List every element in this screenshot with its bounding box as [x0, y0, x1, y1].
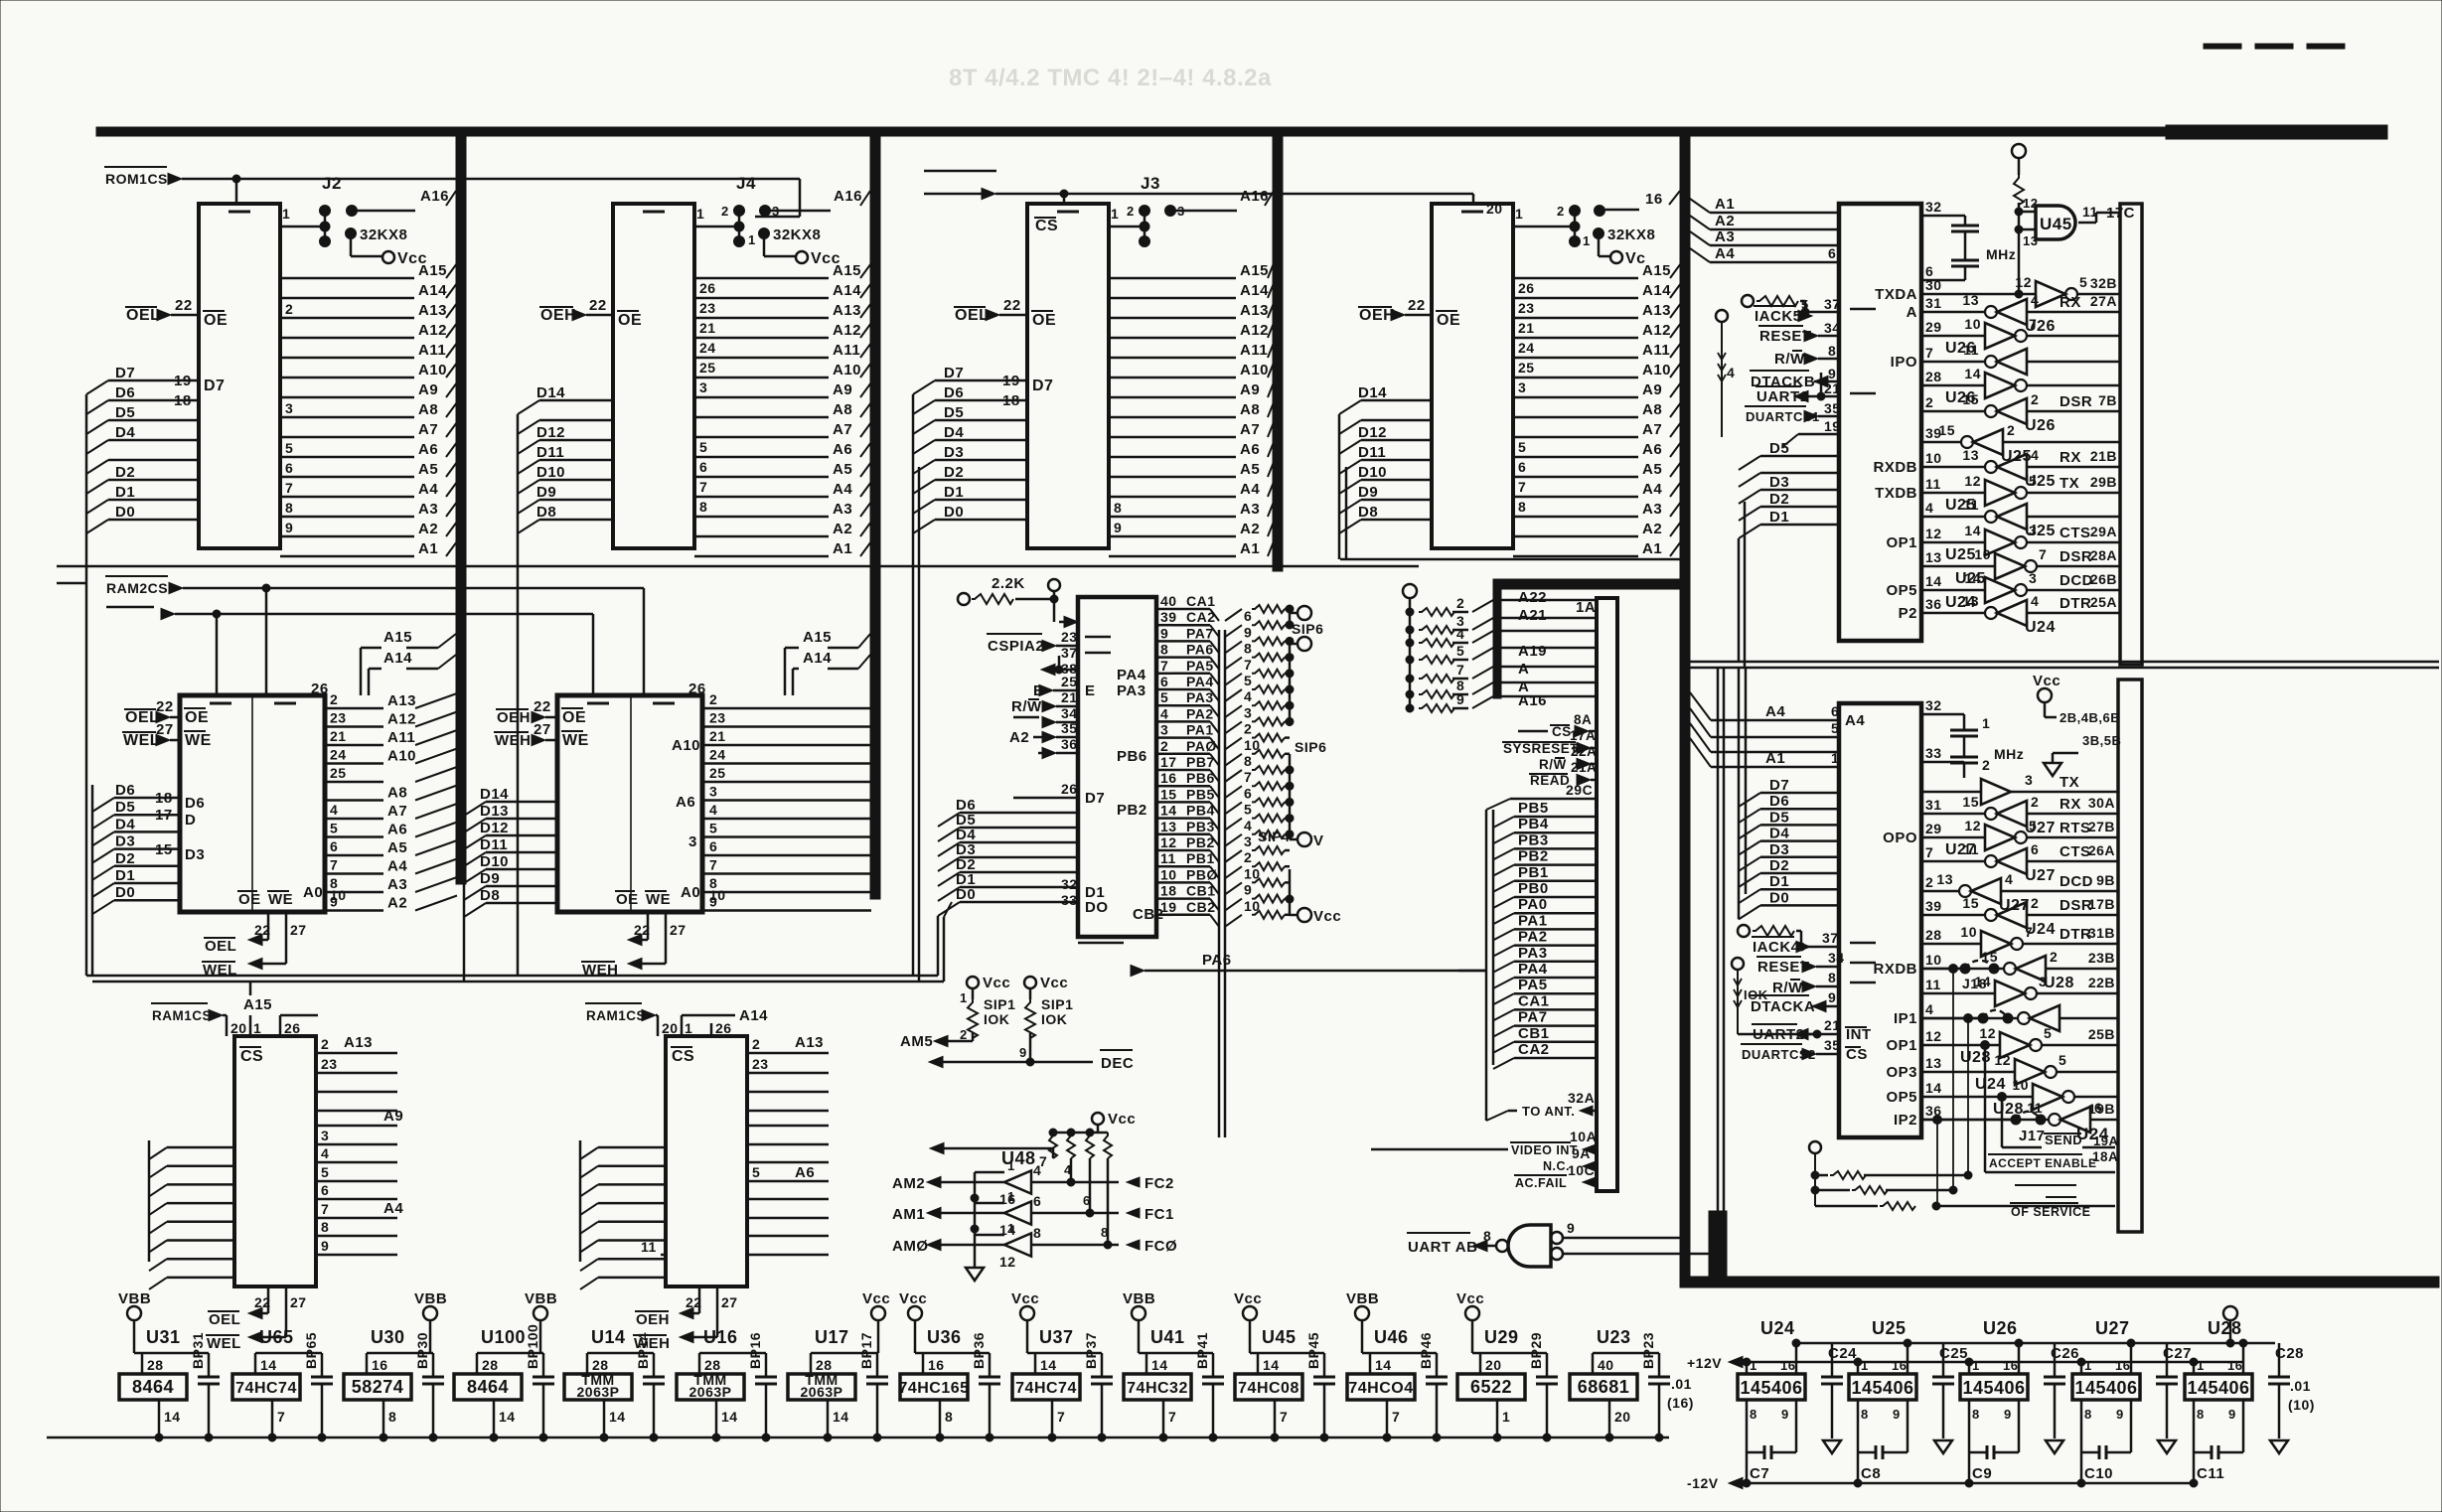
svg-text:13: 13	[1962, 292, 1979, 308]
IC RAM2 low byte 8Kx8 RAM	[180, 695, 325, 912]
wire ROM2 pin1 to J4	[694, 206, 739, 227]
svg-text:5: 5	[1244, 673, 1252, 688]
svg-text:PB3: PB3	[1518, 832, 1549, 848]
svg-text:58274: 58274	[352, 1377, 404, 1397]
svg-text:PA7: PA7	[1186, 625, 1214, 641]
wire UART AB out	[1407, 1228, 1496, 1256]
svg-text:39: 39	[1160, 609, 1177, 625]
IC U41 74HC32 with bypass capacitor BP41	[1123, 1290, 1224, 1441]
wire RAM1H A14 pin	[682, 1007, 768, 1036]
svg-text:4: 4	[1064, 1162, 1072, 1177]
svg-text:U24: U24	[1760, 1318, 1795, 1338]
svg-text:6: 6	[1828, 245, 1836, 261]
svg-text:23: 23	[752, 1056, 769, 1072]
wire OEL to RAM2L	[124, 709, 180, 726]
svg-text:7: 7	[330, 857, 338, 873]
wire SIP6 group2	[1286, 637, 1311, 726]
svg-text:21: 21	[709, 728, 726, 744]
svg-text:U24: U24	[1975, 1076, 2006, 1093]
svg-text:13: 13	[2023, 233, 2038, 248]
svg-text:2B,4B,6B: 2B,4B,6B	[2060, 710, 2120, 725]
wire DEC line	[929, 1033, 1134, 1072]
svg-text:SIP1: SIP1	[1041, 996, 1073, 1012]
label RAM1H CS	[671, 1047, 694, 1065]
svg-text:D3: D3	[1769, 474, 1789, 491]
svg-text:WEH: WEH	[495, 732, 532, 749]
svg-text:OEL: OEL	[955, 307, 989, 324]
resistor option1	[1811, 1171, 1972, 1179]
svg-text:A1: A1	[1765, 750, 1785, 767]
svg-text:A12: A12	[387, 711, 416, 728]
svg-text:10: 10	[709, 887, 726, 903]
svg-text:A: A	[1907, 304, 1917, 321]
svg-text:2: 2	[2050, 949, 2058, 965]
svg-text:A16: A16	[1518, 692, 1547, 709]
jumper at ROM4	[1557, 204, 1605, 247]
wire DUART2 A bus	[1690, 692, 1865, 767]
wire ACCEPT ENABLE row	[1985, 1045, 2118, 1172]
svg-text:Vcc: Vcc	[1040, 975, 1068, 991]
wire DUARTCS2	[1741, 1037, 1868, 1063]
wire AC FAIL row	[1514, 1162, 1597, 1190]
svg-text:OE: OE	[1437, 312, 1460, 329]
inverter U26 DSR 7B	[1921, 391, 2120, 434]
wire pin36	[1038, 736, 1078, 759]
label ROM2 right pin numbers	[699, 280, 716, 515]
svg-text:C9: C9	[1972, 1465, 1992, 1482]
svg-text:BP37: BP37	[1083, 1332, 1099, 1369]
svg-text:10: 10	[1244, 865, 1261, 881]
svg-text:A1: A1	[833, 540, 852, 557]
svg-text:25A: 25A	[2090, 594, 2117, 610]
svg-text:OEL: OEL	[209, 1311, 240, 1328]
svg-text:CA2: CA2	[1186, 609, 1216, 625]
svg-text:27: 27	[290, 1294, 307, 1310]
svg-text:D7: D7	[1769, 777, 1789, 794]
svg-text:22A: 22A	[1571, 744, 1597, 759]
IC U36 74HC165 with bypass capacitor BP36	[898, 1290, 1000, 1441]
svg-text:A4: A4	[1240, 481, 1260, 498]
svg-text:8: 8	[1518, 499, 1526, 515]
svg-text:21: 21	[1518, 320, 1535, 336]
connector P1 middle	[1597, 598, 1617, 1191]
svg-text:A13: A13	[418, 302, 447, 319]
svg-text:AM5: AM5	[900, 1033, 933, 1050]
svg-text:22: 22	[175, 297, 193, 314]
power Vcc SIP1b	[1024, 975, 1068, 999]
svg-text:1: 1	[1750, 1358, 1757, 1373]
svg-text:22: 22	[534, 698, 551, 715]
svg-text:37: 37	[1061, 645, 1078, 661]
svg-text:18A: 18A	[2092, 1149, 2118, 1164]
svg-text:PA2: PA2	[1518, 929, 1548, 946]
svg-text:23: 23	[709, 710, 726, 726]
svg-text:A3: A3	[418, 501, 438, 518]
svg-text:A3: A3	[1715, 228, 1735, 245]
svg-text:8: 8	[2197, 1407, 2205, 1422]
label ROM4 32KX8	[1583, 227, 1655, 256]
IC U37 74HC74 with bypass capacitor BP37	[1011, 1290, 1113, 1441]
jumper J18	[1921, 961, 1999, 991]
label VIA D1 D0 pins	[1061, 876, 1109, 916]
svg-text:OEH: OEH	[540, 307, 576, 324]
inverter U25 CTS 29A	[1886, 523, 2120, 563]
svg-text:3: 3	[1518, 379, 1526, 395]
wire RESET	[1758, 320, 1841, 345]
svg-text:9: 9	[1456, 691, 1464, 707]
svg-text:5: 5	[2029, 473, 2037, 489]
wire rails below DUART1	[1690, 662, 2439, 668]
svg-text:U65: U65	[259, 1327, 294, 1347]
svg-text:D3: D3	[115, 833, 135, 850]
svg-text:74HC74: 74HC74	[1015, 1380, 1077, 1397]
svg-text:16: 16	[928, 1357, 945, 1373]
connector J1A upper	[2120, 204, 2142, 665]
svg-text:2: 2	[1925, 394, 1933, 410]
svg-text:A6: A6	[387, 822, 407, 838]
svg-text:7: 7	[2025, 924, 2033, 940]
svg-text:D7: D7	[1085, 790, 1105, 807]
svg-text:A15: A15	[1642, 262, 1671, 279]
svg-text:D4: D4	[115, 816, 135, 832]
svg-text:28: 28	[482, 1357, 499, 1373]
svg-text:26A: 26A	[2088, 842, 2115, 858]
svg-text:17: 17	[1160, 754, 1177, 770]
svg-text:6: 6	[1244, 785, 1252, 801]
svg-text:A8: A8	[1642, 401, 1662, 418]
svg-text:37: 37	[1824, 296, 1841, 312]
svg-text:PA0: PA0	[1518, 896, 1548, 913]
svg-text:A0: A0	[681, 884, 700, 901]
IC ROM1 32Kx8 EPROM	[175, 204, 280, 548]
svg-text:D11: D11	[536, 444, 564, 461]
wire ROM3CS net	[924, 171, 1473, 204]
svg-text:18: 18	[1160, 883, 1177, 899]
IC U46 74HCO4 with bypass capacitor BP46	[1346, 1290, 1448, 1441]
svg-text:25: 25	[1518, 360, 1535, 376]
svg-text:DCD: DCD	[2060, 873, 2093, 890]
svg-text:2: 2	[1244, 849, 1252, 865]
svg-text:1: 1	[1007, 1189, 1015, 1204]
power Vcc at ROM4 jumper	[1610, 250, 1646, 267]
svg-text:A13: A13	[387, 692, 416, 709]
svg-text:14: 14	[1925, 573, 1942, 589]
svg-text:MHz: MHz	[1994, 746, 2024, 762]
svg-text:A0: A0	[303, 884, 323, 901]
wire spare row2	[2046, 1196, 2076, 1198]
svg-text:U14: U14	[591, 1327, 626, 1347]
svg-text:A14: A14	[833, 282, 861, 299]
svg-text:U27: U27	[2025, 867, 2056, 884]
svg-text:A7: A7	[418, 421, 438, 438]
svg-text:D8: D8	[536, 504, 556, 521]
svg-text:36: 36	[1925, 1103, 1942, 1119]
svg-text:FCØ: FCØ	[1145, 1238, 1177, 1255]
wire RAM2H data bus	[464, 785, 557, 982]
svg-text:14: 14	[1964, 523, 1981, 538]
svg-text:D10: D10	[1358, 464, 1387, 481]
wire RW	[1774, 343, 1839, 368]
svg-text:7: 7	[1244, 657, 1252, 673]
ground	[1934, 1440, 1952, 1453]
svg-text:8A: 8A	[1574, 712, 1592, 727]
svg-text:3: 3	[709, 784, 717, 800]
svg-text:Vcc: Vcc	[1108, 1111, 1136, 1128]
svg-text:AM1: AM1	[892, 1206, 925, 1223]
svg-text:D5: D5	[1769, 440, 1789, 457]
label RAM2H pin10	[709, 887, 726, 903]
svg-text:13: 13	[1925, 549, 1942, 565]
svg-text:U17: U17	[815, 1327, 849, 1347]
svg-text:PB0: PB0	[1518, 880, 1549, 897]
svg-text:2: 2	[2031, 391, 2039, 407]
svg-text:8: 8	[699, 499, 707, 515]
svg-text:CS: CS	[1035, 218, 1058, 234]
wire pullup1 to pin7	[930, 1142, 1053, 1169]
svg-text:D7: D7	[204, 378, 225, 394]
svg-text:32: 32	[1925, 697, 1942, 713]
svg-text:9: 9	[1244, 624, 1252, 640]
wire VIA port pins	[1156, 593, 1219, 927]
svg-text:14: 14	[1263, 1357, 1280, 1373]
svg-text:A8: A8	[387, 785, 407, 802]
svg-text:BP41: BP41	[1194, 1332, 1210, 1369]
wire 3B 5B	[2053, 733, 2121, 763]
svg-text:PA6: PA6	[1202, 952, 1232, 969]
svg-text:CS: CS	[672, 1048, 694, 1065]
wire WEL to RAM2L	[122, 732, 180, 749]
svg-text:WE: WE	[646, 891, 671, 908]
svg-text:11: 11	[1963, 342, 1979, 358]
svg-text:A14: A14	[803, 650, 832, 667]
IC U100 8464 with bypass capacitor BP100	[454, 1290, 557, 1441]
svg-text:34: 34	[1828, 950, 1845, 966]
svg-text:D8: D8	[1358, 504, 1378, 521]
svg-text:6: 6	[1083, 1193, 1091, 1208]
svg-text:13: 13	[1925, 1055, 1942, 1071]
svg-text:WE: WE	[268, 891, 293, 908]
IC U31 8464 with bypass capacitor BP31	[118, 1290, 220, 1441]
power circle option resistors	[1809, 1141, 1821, 1206]
svg-text:24: 24	[699, 340, 716, 356]
wire NAND inputs	[1563, 1220, 1718, 1254]
svg-text:Vcc: Vcc	[862, 1290, 890, 1307]
IC U28 145406 RS-232 driver	[2185, 1318, 2252, 1482]
svg-text:VBB: VBB	[1346, 1290, 1379, 1307]
svg-text:D0: D0	[1769, 889, 1789, 906]
svg-text:A2: A2	[1240, 521, 1260, 537]
wire RAM1H pin26	[711, 1020, 732, 1036]
wire U48 enable chain	[971, 1172, 1004, 1268]
svg-text:3: 3	[2025, 772, 2033, 788]
svg-text:10: 10	[1925, 450, 1942, 466]
svg-text:24: 24	[1518, 340, 1535, 356]
svg-text:16: 16	[1892, 1358, 1907, 1373]
svg-text:WEL: WEL	[123, 732, 160, 749]
svg-text:4: 4	[1160, 705, 1168, 721]
svg-text:A4: A4	[1765, 703, 1785, 720]
wire RAM1H WEH out	[633, 1286, 738, 1352]
svg-text:2: 2	[1982, 757, 1990, 773]
svg-text:BP23: BP23	[1640, 1332, 1656, 1369]
ground	[1823, 1440, 1841, 1453]
power circle pullup chain	[1716, 310, 1735, 437]
svg-text:PB1: PB1	[1518, 864, 1549, 881]
svg-text:6522: 6522	[1470, 1377, 1512, 1397]
wire OEL to ROM3	[954, 307, 1027, 324]
svg-text:A6: A6	[418, 441, 438, 458]
svg-text:32: 32	[1925, 199, 1942, 215]
svg-text:16: 16	[1160, 770, 1177, 786]
svg-text:2: 2	[285, 301, 293, 317]
wire DTACKA	[1750, 989, 1839, 1015]
IC U23 68681 with bypass capacitor BP23	[1570, 1327, 1670, 1441]
svg-text:21: 21	[1824, 1017, 1841, 1033]
svg-text:28: 28	[704, 1357, 721, 1373]
svg-text:23: 23	[699, 300, 716, 316]
buffer U48 AM1	[892, 1158, 1174, 1238]
svg-text:CA2: CA2	[1518, 1041, 1550, 1058]
wire SIP Vcc group	[1286, 869, 1341, 925]
svg-text:D2: D2	[115, 464, 135, 481]
bus bar bottom right	[1681, 1211, 2439, 1287]
wire upper rail 145406	[1796, 1342, 2275, 1345]
label RAM1H A6	[795, 1164, 815, 1181]
svg-text:OE: OE	[185, 709, 209, 726]
svg-text:29: 29	[1925, 821, 1942, 836]
svg-text:12: 12	[1979, 1025, 1996, 1041]
wire IACK5	[1754, 296, 1876, 325]
svg-text:A16: A16	[1240, 188, 1269, 205]
svg-text:31: 31	[1925, 295, 1942, 311]
svg-text:OP1: OP1	[1886, 1037, 1917, 1054]
svg-text:10: 10	[1974, 546, 1991, 562]
svg-text:CTS: CTS	[2060, 843, 2091, 860]
svg-text:DSR: DSR	[2060, 393, 2092, 410]
label J4 32KX8	[748, 227, 821, 256]
wire ROM3 data bus D7-D0	[913, 365, 1027, 976]
svg-text:5: 5	[699, 439, 707, 455]
svg-text:U31: U31	[146, 1327, 181, 1347]
svg-text:PB6: PB6	[1117, 748, 1147, 765]
svg-text:8: 8	[285, 500, 293, 516]
svg-text:PA4: PA4	[1186, 674, 1214, 689]
svg-text:145406: 145406	[1962, 1378, 2025, 1398]
svg-text:16: 16	[2003, 1358, 2018, 1373]
svg-text:4: 4	[1925, 1001, 1933, 1017]
svg-text:12: 12	[1994, 1052, 2011, 1068]
svg-text:7: 7	[1392, 1409, 1400, 1425]
svg-text:J2: J2	[322, 174, 342, 193]
svg-text:PB2: PB2	[1117, 802, 1147, 819]
svg-text:34: 34	[1824, 320, 1841, 336]
wire E pin25	[1033, 674, 1096, 699]
IC U29 6522 with bypass capacitor BP29	[1456, 1290, 1558, 1441]
power Vcc at J2	[382, 250, 427, 267]
svg-text:IOK: IOK	[1744, 987, 1768, 1002]
svg-text:9: 9	[1828, 989, 1836, 1005]
svg-text:BP45: BP45	[1305, 1332, 1321, 1369]
svg-text:5: 5	[1244, 802, 1252, 818]
svg-text:E: E	[1085, 682, 1096, 699]
wire RAM2L WEL out	[202, 912, 307, 979]
svg-text:9: 9	[2004, 1407, 2012, 1422]
svg-text:37: 37	[1822, 930, 1839, 946]
svg-text:11: 11	[1963, 841, 1979, 857]
svg-text:6: 6	[2031, 841, 2039, 857]
wire ROM4 data riser second	[1345, 467, 1348, 559]
svg-text:A9: A9	[1642, 381, 1662, 398]
svg-text:74HC165: 74HC165	[898, 1380, 969, 1397]
svg-text:RXDB: RXDB	[1873, 961, 1917, 978]
svg-text:D7: D7	[115, 365, 135, 381]
svg-text:A12: A12	[418, 322, 447, 339]
wire IACK4	[1752, 930, 1876, 956]
inverter TXDA 32B	[1875, 274, 2120, 307]
svg-text:DSR: DSR	[2060, 548, 2092, 565]
svg-text:5: 5	[321, 1164, 329, 1180]
svg-text:20: 20	[1614, 1409, 1631, 1425]
wire ROM3 A16 exit	[1175, 188, 1274, 211]
svg-text:D10: D10	[480, 853, 509, 870]
svg-text:D2: D2	[115, 850, 135, 867]
svg-text:U100: U100	[481, 1327, 526, 1347]
svg-text:RAM1CS: RAM1CS	[586, 1008, 646, 1023]
svg-text:2: 2	[1557, 204, 1565, 219]
svg-text:68681: 68681	[1578, 1377, 1630, 1397]
svg-text:OEH: OEH	[497, 709, 531, 726]
wire RAM2L OEL out	[204, 912, 271, 955]
svg-text:5: 5	[1160, 689, 1168, 705]
svg-text:1: 1	[1831, 750, 1839, 766]
svg-text:Vcc: Vcc	[1313, 908, 1341, 925]
svg-text:WEL: WEL	[203, 962, 237, 979]
svg-text:11: 11	[2027, 1100, 2043, 1116]
svg-text:OE: OE	[204, 312, 228, 329]
svg-text:A3: A3	[833, 501, 852, 518]
svg-text:20: 20	[230, 1020, 247, 1036]
svg-text:6: 6	[1831, 703, 1839, 719]
wire RAM1H left bundle	[580, 1140, 666, 1289]
wire RAM2 second select	[106, 607, 593, 695]
svg-text:74HC32: 74HC32	[1127, 1380, 1188, 1397]
svg-text:CS: CS	[1552, 724, 1572, 739]
svg-text:8: 8	[1101, 1225, 1109, 1240]
svg-text:5: 5	[330, 821, 338, 836]
svg-text:C10: C10	[2084, 1465, 2113, 1482]
wire OEL to ROM1	[125, 307, 199, 324]
label RAM1L right pin numbers	[321, 1036, 338, 1254]
resistor 2.2K pullup	[958, 575, 1058, 605]
svg-text:D5: D5	[115, 404, 135, 421]
svg-text:5: 5	[2079, 274, 2087, 290]
wire RAM1CS to RAM1L	[151, 1003, 247, 1036]
svg-text:U46: U46	[1374, 1327, 1409, 1347]
wire RAM1CS to RAM1H	[585, 1003, 679, 1036]
svg-text:2: 2	[330, 691, 338, 707]
svg-text:8T 4/4.2 TMC 4! 2!–4!: 8T 4/4.2 TMC 4! 2!–4! 4.8.2a	[949, 65, 1272, 91]
wire ROM3 address lines	[1109, 262, 1274, 557]
svg-text:D5: D5	[1769, 809, 1789, 826]
svg-text:8: 8	[1828, 343, 1836, 359]
svg-text:D9: D9	[480, 870, 500, 887]
svg-text:23B: 23B	[2088, 950, 2115, 966]
svg-text:10: 10	[1160, 866, 1177, 882]
svg-text:D0: D0	[115, 884, 135, 901]
svg-text:9: 9	[1160, 625, 1168, 641]
svg-text:8: 8	[1972, 1407, 1980, 1422]
svg-text:A8: A8	[418, 401, 438, 418]
